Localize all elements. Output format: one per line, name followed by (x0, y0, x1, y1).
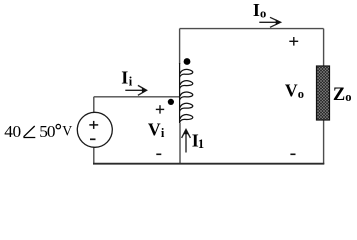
svg-text:o: o (298, 87, 304, 101)
svg-text:o: o (345, 90, 351, 104)
svg-text:I: I (253, 0, 260, 20)
svg-text:Z: Z (333, 85, 345, 105)
svg-text:i: i (129, 75, 133, 89)
svg-text:I: I (121, 68, 128, 88)
svg-text:50: 50 (39, 122, 55, 141)
svg-text:1: 1 (198, 137, 204, 151)
svg-text:i: i (161, 126, 165, 140)
svg-text:V: V (148, 120, 161, 140)
svg-text:40: 40 (4, 122, 21, 141)
svg-text:V: V (285, 81, 298, 101)
svg-text:V: V (62, 124, 72, 140)
svg-text:o: o (260, 7, 266, 21)
